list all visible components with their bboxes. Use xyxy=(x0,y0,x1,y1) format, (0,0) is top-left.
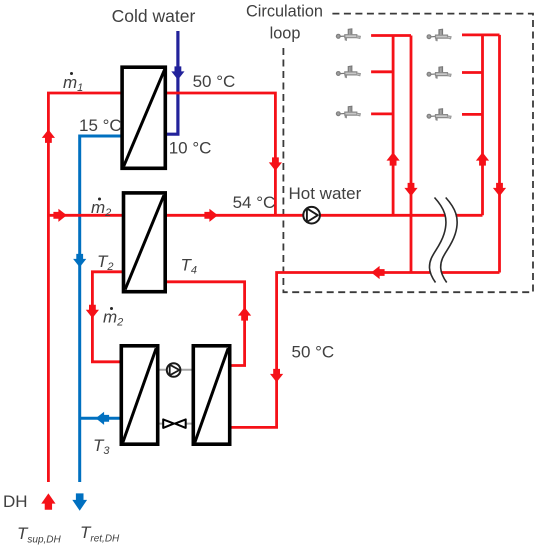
arrow up DH supply terminal xyxy=(41,493,55,509)
wire T2 line down to HX3 xyxy=(92,272,122,362)
wire loop return drop D xyxy=(498,35,501,273)
arrow up on DH supply xyxy=(42,130,55,143)
pipe break (white gap band) xyxy=(435,198,451,283)
tap icon 6 (right riser) xyxy=(427,109,451,121)
wire DH supply riser + m1 line xyxy=(48,93,121,482)
wire 50 degC line from HX1 down to hot water line xyxy=(167,93,276,215)
cold water drop line (navy) xyxy=(167,31,178,134)
tap icon 4 (right riser) xyxy=(427,29,451,41)
arrow left on circulation return xyxy=(371,266,384,279)
svg-text:Circulation: Circulation xyxy=(246,3,323,21)
svg-text:54 °C: 54 °C xyxy=(233,193,276,212)
tap icon 1 (left riser) xyxy=(336,29,360,41)
arrow right on m2 line xyxy=(53,209,66,222)
arrow down on cold water line (navy) xyxy=(171,66,184,79)
valve connector line (gray) xyxy=(158,423,193,425)
arrow up on loop riser C xyxy=(476,152,489,165)
svg-text:10 °C: 10 °C xyxy=(169,139,212,158)
wire T4 riser from HX4 to HX2 xyxy=(167,282,245,366)
wire m2 feed line to HX2 xyxy=(48,214,122,217)
tap icon 5 (right riser) xyxy=(427,67,451,79)
svg-text:Cold water: Cold water xyxy=(112,6,196,26)
arrow down on loop drop D xyxy=(493,183,506,196)
tap icon 3 (left riser) xyxy=(336,106,360,118)
svg-text:50 °C: 50 °C xyxy=(193,72,236,91)
circulation loop dashed enclosure xyxy=(283,14,533,293)
svg-text:50 °C: 50 °C xyxy=(292,343,335,362)
svg-text:loop: loop xyxy=(270,25,301,43)
pipe break wavy lines xyxy=(429,198,457,283)
heat exchanger U2 (middle) xyxy=(124,193,166,292)
heat exchanger U1 (top, domestic hot water preheat) xyxy=(122,67,165,168)
arrow down on m2 drop to HX3 xyxy=(86,305,99,318)
valve V1 between U3 and U4 xyxy=(163,419,186,428)
wire tap headers xyxy=(371,34,411,37)
arrow down on 50 degC right vertical xyxy=(270,369,283,382)
blue DH return riser + 15 degC line xyxy=(80,136,121,482)
heat exchanger U3 (bottom left) xyxy=(121,346,157,444)
pump P2 between U3 and U4 xyxy=(167,363,181,377)
wire loop riser A xyxy=(392,36,395,216)
wire tap branches xyxy=(371,70,393,73)
svg-text:15 °C: 15 °C xyxy=(79,116,122,135)
heat exchanger U4 (bottom right) xyxy=(193,346,229,444)
wire circulation return line + 50 degC drop to HX4 xyxy=(231,273,500,428)
arrow down DH return terminal xyxy=(72,493,87,510)
arrow up on loop riser A xyxy=(387,152,400,165)
tap icon 2 (left riser) xyxy=(336,66,360,78)
svg-text:Hot water: Hot water xyxy=(289,184,362,203)
svg-text:DH: DH xyxy=(3,492,28,511)
pump 2 connector line (gray) xyxy=(158,369,193,371)
arrow up on T4 riser xyxy=(238,307,251,320)
flow arrows xyxy=(41,130,506,510)
arrow down on loop drop B xyxy=(404,183,417,196)
wire loop return drop B xyxy=(410,36,413,273)
arrow down on DH return riser xyxy=(73,254,86,267)
wire loop riser C xyxy=(481,35,484,215)
arrow right on 54 degC line xyxy=(204,209,217,222)
arrow down on 50 degC drop xyxy=(269,157,282,170)
wire 54 degC hot water line to circulation loop xyxy=(167,214,483,217)
arrow left on T3 line xyxy=(96,412,109,425)
wire T3 line (blue) xyxy=(80,417,121,420)
pump P1 on hot water line xyxy=(303,207,320,224)
